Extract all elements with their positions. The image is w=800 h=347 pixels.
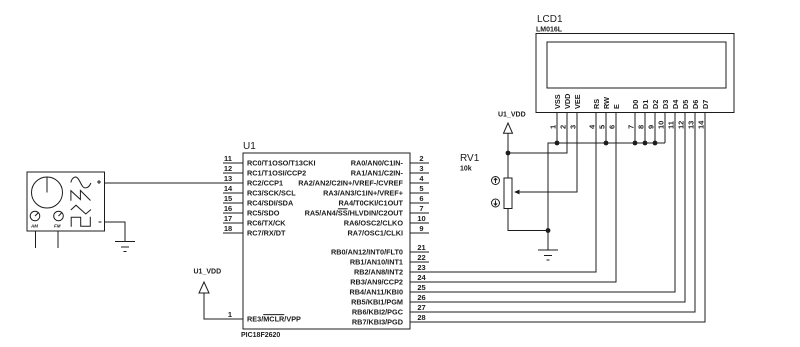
wire: LCD D4 pin11 to U1 RB4 pin25 [410, 113, 675, 293]
svg-text:VSS: VSS [553, 94, 562, 109]
junction: D0 to ground bus [633, 141, 638, 146]
svg-text:15: 15 [224, 194, 232, 203]
svg-text:11: 11 [224, 154, 232, 163]
U1 pin 1 RE3/MCLR/VPP [247, 315, 301, 324]
U1 pin 18 RC7/RX/DT [223, 224, 286, 238]
LCD1 pin 12 D5 [677, 100, 690, 129]
LCD1 pin 11 D4 [667, 99, 680, 129]
svg-text:2: 2 [419, 154, 423, 163]
svg-text:24: 24 [417, 273, 426, 282]
svg-text:13: 13 [224, 174, 232, 183]
svg-text:RC5/SDO: RC5/SDO [247, 209, 280, 218]
power symbol U1_VDD (right) [498, 112, 526, 134]
svg-text:D3: D3 [661, 100, 670, 109]
wire: LCD VDD pin2 to U1_VDD rail [508, 113, 567, 154]
U1 pin 17 RC6/TX/CK [223, 214, 286, 228]
LCD1 pin 2 VDD [559, 94, 572, 129]
svg-text:5: 5 [598, 125, 607, 129]
svg-text:RA1/AN1/C2IN-: RA1/AN1/C2IN- [351, 169, 404, 178]
svg-text:RA5/AN4/SS/HLVDIN/C2OUT: RA5/AN4/SS/HLVDIN/C2OUT [305, 209, 404, 218]
svg-text:D4: D4 [671, 99, 680, 109]
svg-text:RA0/AN0/C1IN-: RA0/AN0/C1IN- [351, 159, 404, 168]
svg-text:AM: AM [30, 224, 38, 229]
svg-text:RA2/AN2/C2IN+/VREF-/CVREF: RA2/AN2/C2IN+/VREF-/CVREF [298, 179, 403, 188]
svg-text:7: 7 [627, 125, 636, 129]
U1 pin 14 RC3/SCK/SCL [223, 184, 296, 198]
LCD1 pin 1 VSS [549, 94, 562, 129]
U1 pin 27 RB6/KBI2/PGC [352, 303, 426, 317]
svg-text:13: 13 [687, 121, 696, 129]
ground (near RV1) [538, 250, 558, 260]
svg-text:RA3/AN3/C1IN+/VREF+: RA3/AN3/C1IN+/VREF+ [323, 189, 403, 198]
wire: U1_VDD to RV1 terminal 1 [507, 133, 509, 178]
svg-text:1: 1 [549, 125, 558, 129]
svg-text:D6: D6 [691, 100, 700, 109]
svg-text:VDD: VDD [563, 94, 572, 109]
wire: ground bus under LCD [548, 143, 665, 250]
svg-text:D1: D1 [641, 100, 650, 109]
svg-text:RS: RS [592, 99, 601, 109]
svg-text:RB4/AN11/KBI0: RB4/AN11/KBI0 [349, 288, 403, 297]
svg-text:FM: FM [54, 224, 61, 229]
svg-text:26: 26 [417, 293, 425, 302]
svg-text:LCD1: LCD1 [537, 14, 563, 25]
LCD1 pin 5 RW [598, 97, 611, 129]
U1 pin 15 RC4/SDI/SDA [223, 194, 294, 208]
U1 pin 16 RC5/SDO [223, 204, 280, 218]
LCD1 pin 6 E [608, 104, 621, 129]
svg-text:6: 6 [419, 194, 423, 203]
wire: LCD VEE pin3 to RV1 wiper [516, 113, 577, 193]
wire: LCD D7 pin14 to U1 RB7 pin28 [410, 113, 705, 323]
U1 pin 21 RB0/AN12/INT0/FLT0 [331, 243, 429, 257]
LCD1 pin 3 VEE [569, 94, 582, 129]
U1 pin 11 RC0/T1OSO/T13CKI [223, 154, 316, 168]
U1 pin 23 RB2/AN8/INT2 [354, 263, 426, 277]
wire: LCD RW pin5 to ground bus [605, 113, 607, 144]
svg-text:RC7/RX/DT: RC7/RX/DT [247, 229, 286, 238]
svg-text:RV1: RV1 [460, 153, 480, 164]
junction: U1_VDD rail to VDD wire [506, 151, 511, 156]
svg-text:12: 12 [677, 121, 686, 129]
wire: generator + output to U1 pin13 RC2/CCP1 [105, 182, 244, 184]
LCD1 pin 4 RS [588, 99, 601, 129]
svg-text:3: 3 [419, 164, 423, 173]
LCD1 pin 8 D1 [637, 100, 650, 129]
svg-text:D5: D5 [681, 100, 690, 109]
potentiometer RV1 10k [460, 153, 520, 209]
svg-text:6: 6 [608, 125, 617, 129]
junction: D2 to ground bus [653, 141, 658, 146]
svg-text:E: E [612, 104, 621, 109]
svg-text:11: 11 [667, 121, 676, 129]
wire: LCD D2 pin9 to ground bus [654, 113, 656, 144]
wire: U1_VDD to U1 pin1 RE3/MCLR [204, 293, 243, 319]
svg-text:U1: U1 [243, 141, 256, 152]
svg-text:RB6/KBI2/PGC: RB6/KBI2/PGC [352, 308, 404, 317]
LCD1 pin 9 D2 [647, 100, 660, 129]
ground (generator) [115, 242, 135, 252]
U1 pin 9 RA7/OSC1/CLKI [347, 224, 429, 238]
wire: LCD D1 pin8 to ground bus [644, 113, 646, 144]
svg-text:12: 12 [224, 164, 232, 173]
svg-text:RC2/CCP1: RC2/CCP1 [247, 179, 283, 188]
U1 pin 4 RA2/AN2/C2IN+/VREF-/CVREF [298, 174, 429, 188]
svg-text:17: 17 [224, 214, 232, 223]
svg-text:RB1/AN10/INT1: RB1/AN10/INT1 [350, 258, 403, 267]
LCD1 pin 10 D3 [657, 100, 670, 129]
svg-text:27: 27 [417, 303, 425, 312]
svg-text:RC4/SDI/SDA: RC4/SDI/SDA [247, 199, 294, 208]
LCD LCD1 LM016L [536, 14, 734, 113]
svg-text:PIC18F2620: PIC18F2620 [241, 332, 280, 339]
svg-text:RB2/AN8/INT2: RB2/AN8/INT2 [354, 268, 403, 277]
LCD1 pin 13 D6 [687, 100, 700, 129]
svg-text:RB7/KBI3/PGD: RB7/KBI3/PGD [352, 318, 403, 327]
svg-text:RB5/KBI1/PGM: RB5/KBI1/PGM [351, 298, 403, 307]
wire: generator - output to ground [105, 222, 126, 242]
wire: LCD D6 pin13 to U1 RB6 pin27 [410, 113, 695, 313]
svg-text:RC3/SCK/SCL: RC3/SCK/SCL [247, 189, 296, 198]
wire: LCD D3 pin10 to ground bus [664, 113, 666, 144]
power symbol U1_VDD (left) [194, 269, 222, 294]
svg-text:RB0/AN12/INT0/FLT0: RB0/AN12/INT0/FLT0 [331, 248, 403, 257]
IC U1 PIC18F2620 [241, 141, 410, 339]
U1 pin 13 RC2/CCP1 [224, 174, 283, 188]
U1 pin 5 RA3/AN3/C1IN+/VREF+ [323, 184, 429, 198]
svg-text:23: 23 [417, 263, 425, 272]
svg-text:16: 16 [224, 204, 232, 213]
U1 pin 26 RB5/KBI1/PGM [351, 293, 426, 307]
U1 pin 2 RA0/AN0/C1IN- [351, 154, 429, 168]
svg-text:22: 22 [417, 253, 425, 262]
svg-text:RB3/AN9/CCP2: RB3/AN9/CCP2 [350, 278, 403, 287]
svg-text:RW: RW [602, 97, 611, 109]
svg-text:9: 9 [647, 125, 656, 129]
LCD1 pin 14 D7 [697, 100, 710, 129]
svg-text:10: 10 [657, 121, 666, 129]
svg-text:D2: D2 [651, 100, 660, 109]
svg-text:18: 18 [224, 224, 232, 233]
U1 pin 12 RC1/T1OSI/CCP2 [223, 164, 306, 178]
LCD1 pin 7 D0 [627, 100, 640, 129]
U1 pin 10 RA6/OSC2/CLKO [344, 214, 429, 228]
svg-text:7: 7 [419, 204, 423, 213]
svg-text:10: 10 [417, 214, 425, 223]
U1 pin 7 RA5/AN4/SS/HLVDIN/C2OUT [305, 204, 429, 218]
svg-text:21: 21 [417, 243, 425, 252]
junction: D1 to ground bus [643, 141, 648, 146]
wire: LCD D0 pin7 to ground bus [634, 113, 636, 144]
U1 pin 24 RB3/AN9/CCP2 [350, 273, 426, 287]
svg-text:8: 8 [637, 125, 646, 129]
U1 pin 22 RB1/AN10/INT1 [350, 253, 429, 267]
wire: RV1 terminal 2 to ground node [508, 209, 548, 231]
wire: LCD D5 pin12 to U1 RB5 pin26 [410, 113, 685, 303]
svg-text:10k: 10k [460, 166, 472, 173]
svg-text:D7: D7 [701, 100, 710, 109]
U1 pin 28 RB7/KBI3/PGD [352, 313, 426, 327]
wire: LCD VSS pin1 to ground bus [556, 113, 558, 144]
junction: RW to ground bus [604, 141, 609, 146]
svg-text:9: 9 [419, 224, 423, 233]
svg-text:VEE: VEE [573, 94, 582, 109]
U1 pin 6 RA4/T0CKI/C1OUT [339, 194, 429, 208]
svg-text:14: 14 [224, 184, 233, 193]
junction: RV1 bottom to ground net [546, 228, 551, 233]
svg-text:28: 28 [417, 313, 425, 322]
svg-text:RC6/TX/CK: RC6/TX/CK [247, 219, 286, 228]
svg-text:5: 5 [419, 184, 423, 193]
svg-text:RC1/T1OSI/CCP2: RC1/T1OSI/CCP2 [247, 169, 306, 178]
junction: VSS to ground bus [555, 141, 560, 146]
svg-text:U1_VDD: U1_VDD [498, 112, 526, 119]
svg-text:25: 25 [417, 283, 425, 292]
svg-text:14: 14 [697, 120, 706, 129]
U1 pin 3 RA1/AN1/C2IN- [351, 164, 429, 178]
signal generator G1 [27, 172, 105, 248]
wire: LCD RS pin4 to U1 RB2 pin23 [410, 113, 596, 273]
svg-text:RC0/T1OSO/T13CKI: RC0/T1OSO/T13CKI [247, 159, 316, 168]
svg-text:1: 1 [228, 310, 232, 319]
svg-text:D0: D0 [631, 100, 640, 109]
U1 pin 25 RB4/AN11/KBI0 [349, 283, 425, 297]
svg-text:U1_VDD: U1_VDD [194, 269, 222, 276]
svg-text:RA4/T0CKI/C1OUT: RA4/T0CKI/C1OUT [339, 199, 404, 208]
svg-text:RA6/OSC2/CLKO: RA6/OSC2/CLKO [344, 219, 404, 228]
svg-text:RE3/MCLR/VPP: RE3/MCLR/VPP [247, 315, 301, 324]
svg-text:2: 2 [559, 125, 568, 129]
svg-text:RA7/OSC1/CLKI: RA7/OSC1/CLKI [347, 229, 403, 238]
svg-text:3: 3 [569, 125, 578, 129]
svg-text:LM016L: LM016L [536, 27, 563, 34]
wire: LCD E pin6 to U1 RB3 pin24 [410, 113, 616, 283]
